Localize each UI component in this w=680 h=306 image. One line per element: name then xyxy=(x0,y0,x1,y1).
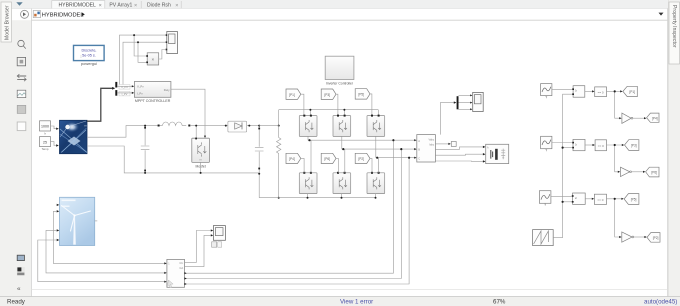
wire P4 to gate leg1 bottom xyxy=(301,158,304,172)
svg-text:≥: ≥ xyxy=(575,196,577,200)
IGBT bottom leg1 xyxy=(299,172,317,194)
wrap wire phase C to wind bus xyxy=(185,158,409,284)
top rail inductor to diode xyxy=(190,125,259,127)
left sidebar strip xyxy=(0,0,32,306)
svg-text:HYBRIDMODEL: HYBRIDMODEL xyxy=(59,3,97,9)
branch down to NOT3 xyxy=(615,199,621,237)
arrow into MPPT V input xyxy=(132,85,134,87)
compare to zero block 2 xyxy=(595,140,606,151)
junction riser xyxy=(278,125,280,127)
wire VI out a to load with jog xyxy=(435,147,484,149)
wire NOT2 to goto P6 xyxy=(632,171,645,173)
scope Scope1 xyxy=(166,32,178,54)
leg1 midpoint wire xyxy=(308,136,311,172)
svg-text:1000: 1000 xyxy=(41,125,49,129)
junction - rail leg1 xyxy=(307,197,309,199)
arrows into machine inputs xyxy=(164,262,166,283)
arrow goto P4 in xyxy=(644,117,646,119)
svg-text:×: × xyxy=(99,3,102,9)
sine wave source 2 xyxy=(541,136,552,151)
wire compare1 to goto P1 xyxy=(607,90,622,92)
bottom toolbar icon 1 xyxy=(17,255,25,261)
svg-text:m: m xyxy=(200,158,202,161)
arrows into load xyxy=(483,146,486,163)
three-phase VI measurement block xyxy=(417,135,436,162)
junction branch2 xyxy=(614,144,616,146)
arrow scope2 in1 xyxy=(211,229,213,231)
simulink model icon xyxy=(33,11,40,18)
svg-text:Discrete,: Discrete, xyxy=(82,49,97,53)
svg-text:== 0: == 0 xyxy=(597,198,603,202)
svg-text:Iabc: Iabc xyxy=(429,142,435,146)
wire P6 to gate leg2 bottom xyxy=(336,158,338,172)
phase B line xyxy=(342,148,416,150)
canvas dropdown arrow top right xyxy=(659,13,664,16)
wrap wire phase A to wind bus xyxy=(185,140,394,273)
svg-text:[P5]: [P5] xyxy=(358,93,364,97)
diode D1 xyxy=(228,121,247,132)
junction branch3 xyxy=(614,198,616,200)
tab 1 active HYBRIDMODEL xyxy=(52,1,105,9)
svg-text:Duty: Duty xyxy=(164,88,170,92)
junction diode anode xyxy=(225,125,227,127)
mouse cursor xyxy=(167,280,173,288)
wire P1 to gate leg1 top xyxy=(301,94,304,115)
NOT gate 3 xyxy=(622,232,634,242)
arrow m wire into selector bars xyxy=(112,87,115,90)
svg-text:Inverter Controller: Inverter Controller xyxy=(326,81,354,85)
svg-text:[P6]: [P6] xyxy=(651,171,657,175)
leg3 midpoint wire xyxy=(376,136,379,172)
DC link capacitor C2 xyxy=(255,126,264,198)
junction phase A leg xyxy=(308,139,310,141)
wire bus to MPPT V input xyxy=(117,85,133,87)
compare to zero block 3 xyxy=(594,194,606,204)
small display icon below scope2 xyxy=(212,242,222,247)
wire wind port4 to machine in3 xyxy=(38,240,166,282)
svg-text:[P2]: [P2] xyxy=(358,157,364,161)
junction boost emitter xyxy=(200,172,202,174)
wire sine1 to relational1 xyxy=(552,88,572,90)
junction - rail leg2 xyxy=(341,197,343,199)
wire relational3 to compare3 xyxy=(585,198,593,200)
svg-text:V_Pv: V_Pv xyxy=(137,85,144,89)
signal label box V_PV xyxy=(119,85,130,90)
terminator small block xyxy=(451,142,456,147)
wire V_PV to scope in1 xyxy=(120,35,167,85)
From tag P2 xyxy=(355,153,370,163)
wire MPPT duty out to boost gate xyxy=(171,89,205,137)
IGBT top leg1 xyxy=(299,115,317,137)
left toolbar icon screenshot xyxy=(17,105,26,113)
junction wrap A xyxy=(392,139,394,141)
canvas border xyxy=(31,9,33,297)
branch down to NOT1 xyxy=(615,91,621,118)
left toolbar icon zoom xyxy=(18,40,26,48)
svg-text:Diode Rsh: Diode Rsh xyxy=(147,3,171,9)
junction C2 bottom rail joint xyxy=(258,173,260,175)
svg-text:powergui: powergui xyxy=(81,61,97,66)
voltage measurement selector bar 1 xyxy=(115,82,117,88)
wire 1000 to PV in1 xyxy=(51,126,58,129)
PV array block xyxy=(60,120,88,153)
wire compare2 to goto P3 xyxy=(607,144,624,146)
wire I drop to product in2 xyxy=(138,42,146,62)
svg-text:Vab: Vab xyxy=(179,267,184,270)
discharge resistor R1 xyxy=(277,126,281,198)
arrows into scope Vabc xyxy=(470,94,472,110)
nav back circle button xyxy=(21,10,29,18)
goto tag P4 xyxy=(647,113,659,122)
junction branch1 xyxy=(614,90,616,92)
riser boost rail to inverter + rail xyxy=(278,110,280,126)
machine phase output ports xyxy=(184,272,186,285)
relational operator 1 xyxy=(572,86,585,98)
arrow goto P3 in xyxy=(622,144,624,146)
wire I_PV to scope in2 xyxy=(123,42,166,84)
junction boost switch top xyxy=(195,125,197,127)
IGBT bottom leg2 xyxy=(333,172,351,194)
C2 port squares xyxy=(258,128,260,130)
arrows into VI measurement xyxy=(414,139,416,159)
junction wrap C xyxy=(408,157,410,159)
breadcrumb toolbar row xyxy=(12,9,668,21)
left toolbar icon image xyxy=(17,90,26,97)
svg-text:×: × xyxy=(134,3,137,9)
scope Vabc Iabc xyxy=(473,92,484,111)
svg-text:[P6]: [P6] xyxy=(324,157,330,161)
breadcrumb arrow xyxy=(82,12,85,16)
junction rail leg2 xyxy=(343,109,345,111)
wire P5 to gate leg3 top xyxy=(370,94,372,116)
tab bar background xyxy=(12,0,668,9)
tab 3 Diode Rsh xyxy=(147,1,181,9)
junction node V line xyxy=(133,34,135,36)
junction - rail leg3 xyxy=(375,197,377,199)
From tag P4 xyxy=(286,153,301,163)
svg-text:View 1 error: View 1 error xyxy=(340,299,373,306)
junction node I line xyxy=(137,41,139,43)
junction resistor bottom xyxy=(278,197,280,199)
IGBT bottom leg3 xyxy=(367,172,385,194)
wind turbine block xyxy=(60,197,95,245)
From tag P6 xyxy=(321,153,336,163)
phase A line xyxy=(308,139,416,141)
arrow NOT2 in xyxy=(618,171,620,173)
svg-text:I_PV: I_PV xyxy=(121,92,127,96)
From tag P1 xyxy=(286,89,301,99)
left toolbar icon resize arrows xyxy=(17,74,26,81)
tab list dropdown arrow xyxy=(16,2,22,6)
relational operator 2 xyxy=(572,139,585,150)
status bar xyxy=(0,297,680,306)
arrow compare3 in xyxy=(592,198,594,200)
goto tag P3 xyxy=(625,140,639,151)
three-phase load block xyxy=(486,144,509,163)
svg-text:V_PV: V_PV xyxy=(121,85,128,89)
arrow goto P1 in xyxy=(620,90,622,92)
powergui block xyxy=(74,45,105,60)
C1 port squares xyxy=(144,127,146,129)
arrow goto P5 in xyxy=(621,198,623,200)
arrow compare1 in xyxy=(592,90,594,92)
svg-text:×: × xyxy=(175,3,178,9)
inverter controller subsystem xyxy=(325,56,354,79)
arrows into wind block ports xyxy=(57,204,60,242)
PV measurement wire m (thick) xyxy=(87,88,113,121)
junction carrier row3 xyxy=(562,201,564,203)
arrow goto P2 in xyxy=(644,236,646,238)
input capacitor C1 xyxy=(141,126,150,173)
junction phase B leg xyxy=(342,148,344,150)
wind block output stub xyxy=(95,220,98,222)
wire sine3 to relational3 xyxy=(551,196,572,198)
wire compare3 to goto P5 xyxy=(607,198,623,200)
svg-text:□: □ xyxy=(80,55,82,59)
arrow NOT1 in xyxy=(619,117,621,119)
arrow NOT3 in xyxy=(619,236,621,238)
wire machine vab out to scope2 in2 xyxy=(185,235,213,266)
svg-text:C: C xyxy=(418,156,420,160)
Property Inspector vertical tab xyxy=(669,2,680,64)
inverter + rail xyxy=(279,109,379,111)
svg-text:HYBRIDMODEL: HYBRIDMODEL xyxy=(42,12,84,18)
boost switch connection to rail xyxy=(195,126,197,139)
left toolbar icon empty square xyxy=(17,122,26,131)
goto tag P6 xyxy=(646,167,659,177)
carrier wire riser xyxy=(553,94,572,237)
tab 2 PV Array1 xyxy=(109,1,141,9)
arrow into PV in2 xyxy=(56,144,59,146)
arrow scope2 in2 xyxy=(211,234,213,236)
svg-text:[P4]: [P4] xyxy=(289,157,295,161)
svg-text:[P2]: [P2] xyxy=(653,236,659,240)
wire V drop to product in1 xyxy=(134,35,146,56)
svg-text:== 0: == 0 xyxy=(598,90,604,94)
wire PV - out to boost bottom rail xyxy=(87,146,259,173)
wire 25 to PV in2 xyxy=(51,142,58,146)
product block (V*I) xyxy=(146,53,159,65)
svg-text:MPPT CONTROLLER: MPPT CONTROLLER xyxy=(135,99,171,103)
wire NOT1 to goto P4 xyxy=(633,117,646,119)
NOT gate 2 xyxy=(621,167,632,176)
svg-text:Ready: Ready xyxy=(7,299,26,306)
wire relational2 to compare2 xyxy=(585,144,594,146)
svg-text:67%: 67% xyxy=(493,299,506,306)
svg-text:5e-05 s.: 5e-05 s. xyxy=(82,53,96,57)
sine wave source 3 xyxy=(539,191,551,206)
constant block 25 temperature xyxy=(40,137,51,147)
svg-text:Property Inspector: Property Inspector xyxy=(671,5,677,48)
relational operator 3 xyxy=(572,193,585,204)
wire P3 to gate leg2 top xyxy=(336,94,338,115)
current measurement selector bar 2 xyxy=(115,90,117,96)
phase C line xyxy=(376,157,416,159)
svg-text:[P1]: [P1] xyxy=(289,93,295,97)
svg-text:[P3]: [P3] xyxy=(631,144,637,148)
junction phase C leg xyxy=(376,157,378,159)
wire PV + out to boost top rail xyxy=(87,126,158,138)
wire NOT3 to goto P2 xyxy=(634,236,646,238)
wire wind port2 to machine in1 xyxy=(53,211,165,263)
svg-text:B: B xyxy=(418,148,420,152)
leg2 midpoint wire xyxy=(342,136,345,172)
demux to scope wires xyxy=(459,95,472,109)
svg-text:Temp: Temp xyxy=(42,147,49,151)
svg-text:≥: ≥ xyxy=(575,142,577,146)
svg-text:≥: ≥ xyxy=(575,89,577,93)
svg-text:[P3]: [P3] xyxy=(324,93,330,97)
junction carrier row2 xyxy=(562,147,564,149)
series inductor L1 xyxy=(158,122,186,125)
IGBT top leg3 xyxy=(367,115,385,137)
junction C1 top xyxy=(144,125,146,127)
MPPT controller subsystem U_MPPT xyxy=(134,82,171,98)
compare to zero block 1 xyxy=(595,87,607,97)
inverter - rail xyxy=(259,197,375,199)
arrow into demux xyxy=(454,101,457,103)
arrow into MPPT I input xyxy=(132,92,134,94)
goto tag P1 xyxy=(623,86,637,96)
Model Browser vertical tab xyxy=(1,2,12,42)
junction diode cathode xyxy=(248,125,250,127)
svg-text:«: « xyxy=(17,286,21,293)
junction rail leg1 xyxy=(309,109,311,111)
right sidebar strip xyxy=(668,0,680,306)
wire wind port3 to machine in2 xyxy=(46,230,166,273)
svg-text:PV Array1: PV Array1 xyxy=(109,3,132,9)
wire relational1 to compare1 xyxy=(585,90,594,92)
svg-text:== 0: == 0 xyxy=(598,144,604,148)
svg-text:[P4]: [P4] xyxy=(652,116,658,120)
collector drops from + rail xyxy=(310,110,378,116)
svg-text:Model Browser: Model Browser xyxy=(5,5,11,40)
From tag P3 xyxy=(321,89,336,99)
constant block 1000 irradiance xyxy=(40,121,51,131)
svg-text:[P5]: [P5] xyxy=(631,198,637,202)
arrow goto P6 in xyxy=(643,171,645,173)
carrier stub row2 xyxy=(563,147,573,149)
top rail to riser xyxy=(259,125,279,127)
wire bus to MPPT I input xyxy=(117,92,133,94)
svg-text:×: × xyxy=(152,57,155,62)
junction C1 bottom xyxy=(144,172,146,174)
wire VI out c to load xyxy=(435,160,484,162)
left toolbar icon fit-to-view xyxy=(17,57,25,65)
sine wave source 1 xyxy=(541,84,552,99)
VI measurement bus up to demux xyxy=(440,103,455,135)
branch down to NOT2 xyxy=(615,145,620,172)
emitter drops to - rail xyxy=(308,194,376,198)
arrow into PV in1 xyxy=(56,128,59,130)
wire product out to scope in3 xyxy=(159,50,167,60)
bottom toolbar icon 2 xyxy=(17,267,25,276)
svg-text:25: 25 xyxy=(43,140,47,144)
carrier stub row3 xyxy=(563,201,572,203)
arrow into terminator xyxy=(448,143,450,145)
svg-text:[P1]: [P1] xyxy=(629,90,635,94)
VI measurement output to terminator xyxy=(435,143,449,145)
goto tag P2 xyxy=(647,233,660,243)
boost switch emitter to bottom rail xyxy=(200,162,202,173)
junction wrap B xyxy=(400,148,402,150)
NOT gate 1 xyxy=(622,113,633,123)
wire sine2 to relational2 xyxy=(552,142,572,144)
wind machine subsystem PMSG xyxy=(167,259,185,287)
demux bar xyxy=(457,96,459,109)
svg-text:I_Pv: I_Pv xyxy=(137,91,143,95)
svg-text:auto(ode45): auto(ode45) xyxy=(644,299,677,306)
signal label box I_PV xyxy=(119,91,130,96)
wire VI out b to load xyxy=(435,154,484,155)
goto tag P5 xyxy=(624,194,639,205)
wire machine vdc out to scope2 in1 xyxy=(185,231,213,263)
arrow compare2 in xyxy=(593,144,595,146)
L1 port squares xyxy=(158,125,160,127)
junction C2 top xyxy=(258,125,260,127)
wire P2 to gate leg3 bottom xyxy=(370,158,372,172)
boost IGBT switch Q1 xyxy=(192,138,210,163)
svg-text:Ir: Ir xyxy=(44,132,46,136)
wrap wire phase B to wind bus xyxy=(185,149,401,278)
scope Scope2 xyxy=(213,226,225,241)
triangle carrier source xyxy=(533,230,554,246)
svg-text:A: A xyxy=(418,139,420,143)
svg-text:m: m xyxy=(85,125,87,128)
From tag P5 xyxy=(355,89,370,99)
arrow into boost gate xyxy=(204,136,206,138)
svg-text:Vabc: Vabc xyxy=(428,138,434,142)
IGBT top leg2 xyxy=(333,115,351,137)
